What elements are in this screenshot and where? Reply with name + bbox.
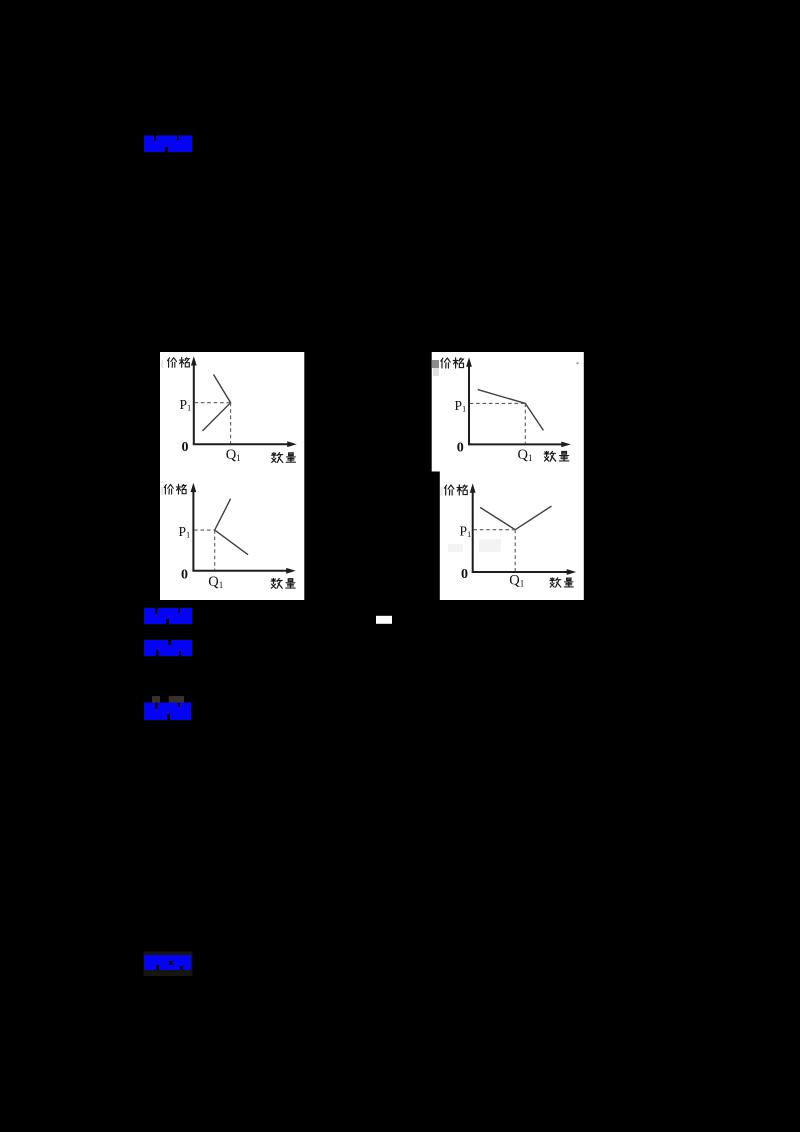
x-axis B bbox=[468, 443, 564, 445]
label 数量 B bbox=[544, 451, 569, 461]
dashed Q1 line D bbox=[514, 530, 516, 572]
x-axis D bbox=[472, 571, 569, 573]
x-axis A bbox=[193, 443, 290, 445]
label 数量 C bbox=[271, 579, 295, 589]
blue marker 4 bbox=[144, 703, 191, 721]
curve C bbox=[215, 499, 248, 555]
speck B bbox=[577, 363, 579, 365]
label 数量 A bbox=[272, 453, 296, 463]
curve D bbox=[480, 506, 551, 530]
label 数量 D bbox=[550, 578, 573, 587]
halo of marker 5 bbox=[144, 952, 193, 977]
right white panel bbox=[432, 352, 584, 600]
y-axis B bbox=[468, 365, 470, 444]
corner artifact B bbox=[432, 360, 439, 368]
edge artifact C bbox=[161, 487, 163, 495]
dashed Q1 line B bbox=[524, 403, 526, 443]
smudge D bbox=[448, 544, 463, 552]
dashed P1 line A bbox=[195, 402, 231, 404]
y-axis C bbox=[192, 490, 194, 571]
edge artifact D bbox=[441, 487, 443, 495]
svg-text:0: 0 bbox=[461, 567, 468, 582]
label 价格 D bbox=[445, 485, 468, 495]
x-axis C bbox=[192, 570, 288, 572]
blue marker 1 bbox=[144, 136, 192, 153]
y-axis D bbox=[472, 491, 474, 572]
label 价格 C bbox=[164, 484, 186, 494]
white answer dash bbox=[376, 616, 392, 624]
svg-text:0: 0 bbox=[457, 440, 464, 455]
curve B bbox=[478, 390, 544, 431]
dashed P1 line C bbox=[194, 529, 215, 531]
dashed Q1 line C bbox=[214, 530, 216, 570]
y-axis A bbox=[193, 364, 195, 445]
svg-text:0: 0 bbox=[181, 567, 188, 582]
curve A bbox=[203, 375, 231, 431]
gray stubs above marker 4 bbox=[152, 696, 160, 703]
svg-text:0: 0 bbox=[182, 440, 189, 455]
dashed Q1 line A bbox=[230, 403, 232, 444]
label 价格 A bbox=[168, 358, 190, 368]
edge artifact A bbox=[161, 360, 163, 368]
dashed P1 line D bbox=[473, 529, 515, 531]
blue marker 5 bbox=[144, 955, 191, 970]
label 价格 B bbox=[441, 358, 464, 368]
dashed P1 line B bbox=[470, 402, 526, 404]
blue marker 3 bbox=[144, 640, 192, 656]
left white panel bbox=[160, 352, 304, 600]
blue marker 2 bbox=[144, 608, 192, 624]
